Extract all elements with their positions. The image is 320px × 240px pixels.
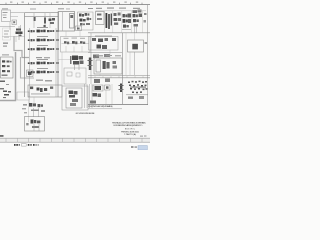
svg-text:863 H/C: 863 H/C [125,129,135,131]
svg-text:7 PARTS (A): 7 PARTS (A) [124,133,136,136]
svg-text:FOR USE WITH CLARK EQUIPMENT C: FOR USE WITH CLARK EQUIPMENT CO. [114,124,143,127]
svg-text:GROUP MOUNTED ENGINE: GROUP MOUNTED ENGINE [76,113,96,115]
